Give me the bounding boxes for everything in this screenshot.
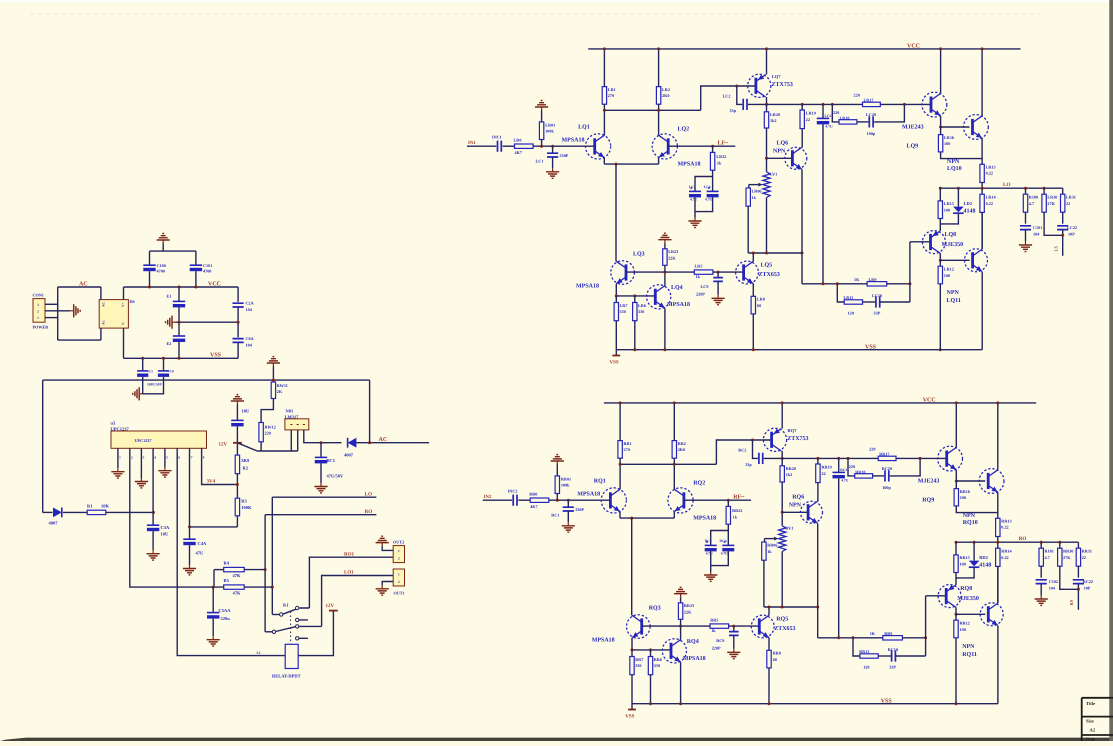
wire C101 to gnd bbox=[1040, 584, 1042, 596]
svg-text:1k: 1k bbox=[717, 161, 722, 166]
value RQ10 NPN bbox=[963, 513, 976, 519]
svg-text:RQ1: RQ1 bbox=[594, 479, 606, 485]
resistor LR11 bbox=[844, 300, 862, 304]
svg-text:RR06: RR06 bbox=[767, 543, 777, 548]
transistor RQ11 NPN bbox=[980, 603, 1003, 626]
diode LD2 4148 bbox=[953, 207, 964, 214]
label LR7 bbox=[620, 303, 628, 308]
wire Q6 emitter down to feedback row bbox=[817, 524, 819, 638]
value RR2 2K0 bbox=[678, 447, 685, 452]
svg-text:33P: 33P bbox=[874, 311, 881, 316]
connector OUT1 bbox=[393, 569, 404, 586]
label INC2 bbox=[508, 489, 518, 494]
wire Q10 emitter to R13 bbox=[997, 492, 999, 518]
junction Q6 base bbox=[781, 511, 784, 514]
svg-text:1k2: 1k2 bbox=[786, 472, 793, 477]
value RQ8 MJE350 bbox=[957, 596, 979, 602]
wire row to R19 bbox=[817, 458, 819, 464]
svg-text:RC1: RC1 bbox=[551, 513, 559, 518]
wire R11 branch bbox=[853, 638, 860, 656]
wire C21 down to feedback row bbox=[822, 124, 824, 283]
svg-text:RR01: RR01 bbox=[561, 476, 571, 481]
svg-text:220P: 220P bbox=[712, 646, 721, 651]
junction VSS/R6 bbox=[649, 702, 652, 705]
junction R100 bbox=[1040, 541, 1043, 544]
resistor LR1 bbox=[602, 87, 606, 105]
label D0 bbox=[130, 299, 135, 304]
value RR01 100k bbox=[561, 482, 570, 487]
capacitor LC21 4.7U bbox=[817, 118, 829, 124]
label RR8 bbox=[773, 651, 781, 656]
ground above 10U cap bbox=[231, 395, 244, 405]
svg-text:3K9: 3K9 bbox=[241, 458, 250, 463]
wire gnd to R23 bbox=[664, 243, 666, 249]
wiper arrow RV1 bbox=[765, 537, 779, 541]
svg-text:IN2: IN2 bbox=[484, 494, 492, 500]
value C3A 10U bbox=[161, 531, 170, 536]
value C101 104 bbox=[1049, 586, 1056, 591]
pin number 1 UPC1237 bbox=[119, 455, 121, 459]
label R100/R101 bbox=[1045, 548, 1054, 553]
value C4A 47U bbox=[196, 551, 205, 556]
label RR14 bbox=[1001, 548, 1012, 553]
net RS label (rotated) bbox=[1069, 599, 1074, 605]
label R4 bbox=[224, 560, 230, 565]
junction R30/C22 bbox=[1061, 234, 1064, 237]
wire Q3 base row bbox=[626, 271, 694, 273]
svg-text:MJE243: MJE243 bbox=[918, 478, 940, 484]
svg-text:LR9: LR9 bbox=[869, 277, 877, 282]
junction Q3e/R7 bbox=[615, 294, 618, 297]
wire R23 to base row bbox=[664, 265, 666, 272]
svg-text:R101: R101 bbox=[1045, 548, 1054, 553]
value LC9 220P bbox=[696, 292, 705, 297]
svg-text:L1: L1 bbox=[257, 651, 261, 655]
junction R2/R3/pin8 bbox=[236, 483, 239, 486]
resistor RR23 bbox=[678, 603, 682, 620]
wire R19 to Q6 collector bbox=[801, 129, 803, 148]
svg-text:AC: AC bbox=[102, 302, 106, 307]
wire R14 to Q11 collector bbox=[997, 566, 999, 603]
photo dark bottom band bbox=[0, 738, 1113, 741]
svg-text:4: 4 bbox=[154, 455, 156, 459]
wire pin5 to gnd bbox=[164, 460, 166, 467]
label LQ1 bbox=[578, 125, 590, 131]
value UPC1237 (above box) bbox=[111, 427, 130, 432]
value RR16 100 bbox=[960, 495, 966, 500]
wire R4 drop bbox=[213, 570, 215, 588]
value R100 4.7 bbox=[1029, 201, 1034, 206]
switch K1 throws 1 bbox=[296, 606, 310, 621]
value LR0 4K7 bbox=[515, 150, 522, 155]
wire to R6 bbox=[634, 296, 636, 303]
capacitor LC20 100p bbox=[869, 116, 873, 127]
svg-text:R3: R3 bbox=[241, 498, 247, 503]
label LC10 bbox=[872, 293, 882, 298]
wire C2 to Q7 collector node bbox=[748, 103, 767, 105]
wire AC sense top run bbox=[43, 379, 370, 381]
wire Q2 base to feedback node bbox=[668, 145, 735, 147]
svg-text:330: 330 bbox=[638, 309, 644, 314]
svg-text:3: 3 bbox=[143, 455, 145, 459]
svg-text:0.22: 0.22 bbox=[986, 171, 993, 176]
value LQ5 ZTX653 bbox=[759, 272, 780, 278]
wire node corner to R31 bbox=[1062, 188, 1064, 194]
label E1 bbox=[167, 293, 172, 298]
wire R06 down bbox=[763, 560, 765, 607]
junction R30 bbox=[1058, 541, 1061, 544]
resistor LR6 bbox=[633, 303, 637, 321]
label RR19 bbox=[822, 465, 832, 470]
power bar 12V node bbox=[233, 442, 242, 444]
svg-text:220u: 220u bbox=[221, 616, 231, 621]
pin 1 OUT1 bbox=[398, 573, 400, 577]
value LR15 100 bbox=[944, 207, 950, 212]
resistor RR5 bbox=[710, 624, 729, 628]
svg-text:4.7: 4.7 bbox=[1045, 555, 1050, 560]
wire VCC to R1 bbox=[603, 49, 605, 87]
wire C1 to gnd bbox=[567, 511, 569, 522]
svg-text:4.7: 4.7 bbox=[1029, 201, 1034, 206]
value LC2 33p bbox=[730, 108, 737, 113]
capacitor RC22 10P bbox=[1073, 580, 1084, 584]
wire AC sense right bbox=[356, 442, 429, 444]
wire Q11 collector up bbox=[981, 212, 983, 249]
value LC3 4.7U bbox=[690, 198, 697, 202]
label K1 bbox=[283, 603, 290, 608]
resistor R1 10K bbox=[87, 510, 106, 514]
value LC10 33P bbox=[874, 311, 881, 316]
junction Q8c/Q11 base bbox=[939, 259, 942, 262]
transistor RQ7 ZTX753 bbox=[763, 428, 786, 451]
value RR0 4K7 bbox=[530, 504, 537, 509]
label LR30 bbox=[1047, 194, 1057, 199]
label RC9 bbox=[716, 638, 724, 643]
capacitor INC1 bbox=[498, 141, 502, 152]
wire R4 right bbox=[244, 569, 265, 571]
svg-text:100U/50V: 100U/50V bbox=[147, 382, 163, 386]
svg-text:220P: 220P bbox=[696, 292, 705, 297]
value LR22 1k bbox=[717, 161, 722, 166]
label RQ3 bbox=[649, 606, 661, 612]
wire row up to Q7 base bbox=[701, 86, 756, 110]
wire VCC to Q10 collector bbox=[997, 403, 999, 470]
value RQ1 MPSA18 bbox=[577, 492, 600, 498]
wire C2 to Q7 collector node bbox=[764, 457, 783, 459]
wire C1 to gnd bbox=[552, 157, 554, 168]
label C2A bbox=[246, 301, 254, 306]
value RD2 4148 bbox=[979, 563, 991, 569]
wire E2 to VSS rail bbox=[178, 342, 180, 358]
wire to Q6 base bbox=[767, 157, 793, 159]
wire emitter tail bbox=[604, 163, 658, 165]
svg-text:4007: 4007 bbox=[49, 521, 59, 526]
svg-text:LR20: LR20 bbox=[770, 112, 780, 117]
wire C10 right bbox=[895, 655, 925, 657]
wire input node to Q1 base bbox=[533, 145, 595, 147]
label C0 (psu) bbox=[170, 369, 175, 373]
svg-text:VCC: VCC bbox=[208, 282, 221, 288]
label LR14 bbox=[986, 194, 997, 199]
wire node to C1 bbox=[552, 146, 554, 153]
junction rail/R1 bbox=[619, 401, 622, 404]
wire to Q10 base bbox=[941, 126, 970, 128]
pin V+ of bridge bbox=[121, 303, 125, 307]
svg-text:RR2: RR2 bbox=[678, 441, 686, 446]
svg-text:C4A: C4A bbox=[198, 541, 207, 546]
value RR23 22K bbox=[684, 610, 692, 615]
svg-text:RW11: RW11 bbox=[277, 383, 288, 388]
wire R18 branch down bbox=[832, 104, 839, 122]
pin 2 OUT2 bbox=[398, 557, 400, 561]
wire C5AA to gnd bbox=[212, 619, 214, 637]
wire input node to Q1 base bbox=[549, 499, 611, 501]
svg-text:47U/50V: 47U/50V bbox=[327, 474, 345, 479]
label LQ2 bbox=[678, 127, 690, 133]
label RC3 bbox=[705, 539, 712, 543]
wire R7 to VSS bbox=[615, 321, 617, 350]
junction VSS/R12 bbox=[939, 348, 942, 351]
svg-text:C101: C101 bbox=[1033, 225, 1042, 230]
label BC1 bbox=[327, 458, 336, 463]
junction Q6 base bbox=[765, 157, 768, 160]
value LC4 4.7U bbox=[705, 198, 712, 202]
wire R11 branch bbox=[837, 284, 844, 302]
ground below LC1 bbox=[546, 168, 559, 178]
svg-text:27K: 27K bbox=[1047, 201, 1055, 206]
svg-text:10P: 10P bbox=[1084, 586, 1091, 591]
svg-text:RO1: RO1 bbox=[344, 551, 355, 557]
label RR22 bbox=[732, 508, 742, 513]
label RQ6 bbox=[792, 495, 804, 501]
wire Q5 collector up bbox=[768, 607, 770, 615]
ground pin3 UPC1237 bbox=[135, 478, 148, 488]
junction R6 bbox=[649, 648, 652, 651]
resistor RR17 bbox=[878, 456, 896, 460]
wire VCC to R2 bbox=[658, 49, 660, 87]
wire row to C21 bbox=[822, 104, 824, 118]
svg-text:2K0: 2K0 bbox=[662, 93, 669, 98]
resistor LR17 bbox=[863, 102, 881, 106]
value BC1 47U/50V bbox=[327, 474, 345, 479]
junction tail bbox=[630, 517, 633, 520]
wire VSS rail bbox=[632, 703, 998, 705]
junction rail/Q7 bbox=[765, 47, 768, 50]
label LQ4 bbox=[671, 285, 683, 291]
text A2 bbox=[1090, 728, 1096, 733]
wire RW12 to adj row bbox=[260, 442, 262, 451]
capacitor RC10 33P bbox=[892, 650, 896, 661]
value RR14 0.22 bbox=[1001, 555, 1008, 560]
transistor RQ5 ZTX653 bbox=[751, 615, 774, 638]
svg-text:47K: 47K bbox=[233, 591, 242, 596]
wire speaker stub bbox=[1062, 230, 1064, 256]
junction VSS/C1cap bbox=[141, 357, 144, 360]
wire mirror base row bbox=[632, 649, 671, 651]
junction rail/R2 bbox=[673, 401, 676, 404]
svg-text:22: 22 bbox=[806, 117, 810, 122]
resistor LR16 bbox=[938, 135, 942, 152]
wire gnd to R01 bbox=[541, 111, 543, 122]
value 10U cap bbox=[242, 409, 251, 414]
wire Q1 emitter bbox=[619, 512, 621, 518]
svg-text:INC1: INC1 bbox=[492, 135, 502, 140]
junction Q3e/R7 bbox=[631, 648, 634, 651]
junction E2/VSS bbox=[178, 357, 181, 360]
svg-text:2K: 2K bbox=[277, 389, 283, 394]
svg-text:LV1: LV1 bbox=[770, 172, 778, 177]
junction R15 top bbox=[955, 541, 958, 544]
svg-text:IN1: IN1 bbox=[468, 140, 476, 146]
value RR17 220 bbox=[869, 446, 875, 451]
svg-text:LR19: LR19 bbox=[806, 111, 816, 116]
junction VSS/C0cap bbox=[162, 357, 165, 360]
svg-text:0.22: 0.22 bbox=[1001, 555, 1008, 560]
svg-text:2: 2 bbox=[37, 309, 39, 313]
svg-text:10K: 10K bbox=[101, 503, 110, 508]
wire C100 to VCC rail bbox=[149, 271, 151, 287]
svg-text:270: 270 bbox=[608, 93, 614, 98]
svg-text:AC: AC bbox=[102, 320, 106, 325]
junction Q6 emitter/row bbox=[801, 252, 804, 255]
polarity marks RC3/RC4 bbox=[706, 541, 726, 543]
label LC9 bbox=[701, 284, 709, 289]
svg-text:330: 330 bbox=[635, 663, 641, 668]
svg-text:NPN: NPN bbox=[947, 159, 960, 165]
resistor LR18 bbox=[839, 120, 857, 124]
value RR20 1k2 bbox=[786, 472, 793, 477]
value LQ11 NPN bbox=[947, 290, 960, 296]
svg-text:5: 5 bbox=[166, 455, 168, 459]
value LC20 100p bbox=[867, 131, 876, 136]
label RQ9 bbox=[922, 498, 934, 504]
wire LO sense bbox=[272, 496, 376, 498]
wire AC top bbox=[58, 286, 101, 288]
svg-text:POWER: POWER bbox=[33, 325, 50, 330]
value LR1 270 bbox=[608, 93, 614, 98]
net 12V label (reg) bbox=[219, 442, 228, 448]
resistor RR06 bbox=[762, 542, 766, 560]
wire to C5AA bbox=[212, 587, 214, 613]
wire VCC to Q9 collector bbox=[955, 403, 957, 447]
wire R16 to Q10 emitter bbox=[941, 152, 983, 159]
svg-text:Date: Date bbox=[1086, 737, 1095, 742]
junction VSS/Q4 bbox=[663, 348, 666, 351]
value LQ3 MPSA18 bbox=[576, 284, 599, 290]
wire C9 to gnd bbox=[717, 281, 719, 294]
net LO1 label bbox=[344, 570, 354, 576]
ground left of psu caps bbox=[133, 387, 143, 400]
wire VCC to Q9 collector bbox=[940, 49, 942, 93]
value R3 100K bbox=[241, 505, 252, 510]
svg-text:VCC: VCC bbox=[907, 44, 920, 50]
value D1 4007 bbox=[49, 521, 59, 526]
wire pin2 sense line bbox=[130, 460, 224, 587]
svg-text:RW12: RW12 bbox=[265, 424, 276, 429]
svg-text:BC1: BC1 bbox=[327, 458, 336, 463]
svg-text:4007: 4007 bbox=[344, 453, 354, 458]
wire speaker stub bbox=[1077, 584, 1079, 610]
wire node to R15 bbox=[955, 542, 957, 555]
label u3 bbox=[111, 421, 117, 426]
pins LM317 bbox=[290, 424, 305, 426]
svg-text:LR18: LR18 bbox=[840, 115, 850, 120]
svg-text:NPN: NPN bbox=[773, 149, 786, 155]
svg-text:3: 3 bbox=[37, 303, 39, 307]
label LC4 bbox=[704, 185, 711, 189]
value LR20 1k2 bbox=[770, 118, 777, 123]
label LR19 bbox=[806, 111, 816, 116]
label RR16 bbox=[960, 489, 970, 494]
ground below C5AA bbox=[207, 636, 220, 646]
label LQ6 bbox=[777, 141, 789, 147]
label LR20 bbox=[770, 112, 780, 117]
transistor LQ4 MPSA18 bbox=[647, 285, 671, 309]
wire R19 to Q6 collector bbox=[817, 483, 819, 502]
junction D2 top bbox=[973, 541, 976, 544]
wire R30 bottom bbox=[1044, 212, 1063, 235]
junction input/R01 bbox=[556, 499, 559, 502]
wire VSS to cap C1 bbox=[142, 358, 144, 371]
capacitor C4A 47U bbox=[183, 539, 195, 545]
svg-text:33P: 33P bbox=[889, 665, 896, 670]
svg-text:E1: E1 bbox=[167, 293, 172, 298]
resistor RR2 bbox=[672, 441, 676, 459]
value RR12 100 bbox=[960, 627, 966, 632]
junction RW11/sense run bbox=[272, 379, 275, 382]
capacitor RC3 4.7U bbox=[705, 545, 717, 551]
svg-text:RQ11: RQ11 bbox=[962, 652, 977, 658]
value C2A 104 bbox=[246, 307, 253, 312]
svg-text:LR14: LR14 bbox=[986, 194, 997, 199]
resistor RR19 bbox=[816, 464, 820, 483]
value LR12 100 bbox=[944, 273, 950, 278]
value RQ6 NPN bbox=[789, 503, 802, 509]
wire collector row bbox=[620, 463, 716, 465]
svg-text:LO: LO bbox=[365, 491, 373, 497]
wire node to R30 bbox=[1059, 542, 1061, 548]
svg-text:4700: 4700 bbox=[203, 269, 211, 274]
wire mid ground rail bbox=[176, 321, 239, 323]
svg-text:100: 100 bbox=[960, 561, 966, 566]
wire Q5 emitter to R8 bbox=[768, 638, 770, 651]
svg-text:C101: C101 bbox=[203, 263, 212, 268]
label LQ3 bbox=[633, 252, 645, 258]
diode D1 4007 bbox=[53, 508, 62, 518]
svg-text:LR16: LR16 bbox=[944, 135, 954, 140]
value LC1 330P bbox=[560, 153, 569, 158]
svg-text:RQ5: RQ5 bbox=[776, 617, 788, 623]
junction Q4c/R23 bbox=[663, 271, 666, 274]
value RC20 100p bbox=[882, 485, 891, 490]
ground pin1 UPC1237 bbox=[111, 468, 124, 478]
resistor R2 3K9 bbox=[235, 455, 239, 474]
junction rail/R1 bbox=[603, 47, 606, 50]
svg-text:C0: C0 bbox=[170, 369, 175, 373]
svg-text:RR23: RR23 bbox=[684, 603, 694, 608]
svg-text:UPC1237: UPC1237 bbox=[135, 438, 152, 443]
wire R23 to base row bbox=[680, 619, 682, 626]
ground above OUT2 bbox=[376, 536, 389, 546]
svg-text:RO: RO bbox=[365, 509, 373, 515]
ground above RR01 bbox=[551, 455, 564, 465]
junction pot/row bbox=[765, 252, 768, 255]
value RELAY-DPDT bbox=[272, 674, 301, 679]
ground below output zobel (R) bbox=[1035, 596, 1048, 606]
svg-text:V-: V- bbox=[121, 322, 125, 325]
wire VAS row left bbox=[767, 103, 863, 105]
switch K1 throws 2 bbox=[296, 625, 322, 640]
